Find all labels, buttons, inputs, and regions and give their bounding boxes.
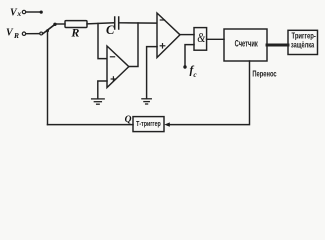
wire Vx lead	[26, 11, 40, 13]
T-trigger box	[133, 117, 164, 132]
capacitor C left plate	[114, 17, 116, 29]
svg-text:C: C	[106, 23, 115, 37]
wire summing-node branch down to integrator inverting input	[98, 24, 107, 59]
wire switch to resistor	[55, 23, 65, 25]
svg-text:Перенос: Перенос	[252, 71, 276, 79]
resistor R body	[65, 21, 87, 28]
wire capacitor to comparator input	[119, 22, 157, 24]
svg-text:Т-триггер: Т-триггер	[136, 120, 161, 128]
op-amp U1 integrator triangle	[107, 46, 129, 88]
node Vx terminal circle	[22, 10, 25, 13]
wire integrator output rising to feedback node	[129, 23, 138, 67]
counter box	[224, 29, 267, 61]
capacitor C right plate	[118, 17, 120, 29]
bus counter to latch	[267, 44, 288, 47]
op-amp U2 comparator triangle	[157, 13, 180, 58]
wire VR lead	[26, 33, 40, 35]
pin U2 plus	[160, 44, 165, 48]
svg-text:Q: Q	[125, 115, 132, 125]
latch box	[288, 30, 318, 54]
wire AND gate to counter	[207, 38, 224, 40]
arrowhead into T-trigger	[164, 122, 170, 126]
svg-text:R: R	[13, 31, 19, 40]
svg-text:защёлка: защёлка	[291, 39, 315, 50]
node switch pivot dot	[53, 23, 56, 26]
wire comparator output to AND gate	[180, 34, 194, 36]
svg-text:&: &	[197, 29, 205, 45]
node fc dot	[183, 65, 186, 68]
wire switch control line down to Q feedback	[47, 31, 49, 125]
AND gate U3 box	[194, 28, 207, 51]
node VR terminal circle	[22, 32, 25, 35]
pin U2 minus	[160, 19, 164, 21]
wire fc clock into AND gate	[185, 45, 194, 66]
wire Q feedback from T-trigger to switch	[48, 124, 134, 126]
pin U1 plus	[111, 77, 115, 81]
node Vx contact dot	[40, 11, 43, 14]
wire carry output down and left to T-trigger	[168, 61, 250, 125]
pin U1 minus	[110, 56, 114, 58]
switch S1 lever	[43, 24, 55, 34]
node VR contact circle	[40, 32, 43, 35]
svg-text:x: x	[16, 9, 21, 18]
ground below U1	[92, 99, 105, 104]
svg-text:Счетчик: Счетчик	[235, 38, 258, 49]
wire U1 plus to ground	[98, 81, 107, 99]
svg-text:R: R	[70, 26, 79, 40]
node switch control dot	[46, 29, 49, 32]
wire resistor to capacitor node	[87, 23, 114, 24]
wire U2 plus to ground	[147, 47, 157, 99]
ground below U2	[142, 99, 151, 104]
